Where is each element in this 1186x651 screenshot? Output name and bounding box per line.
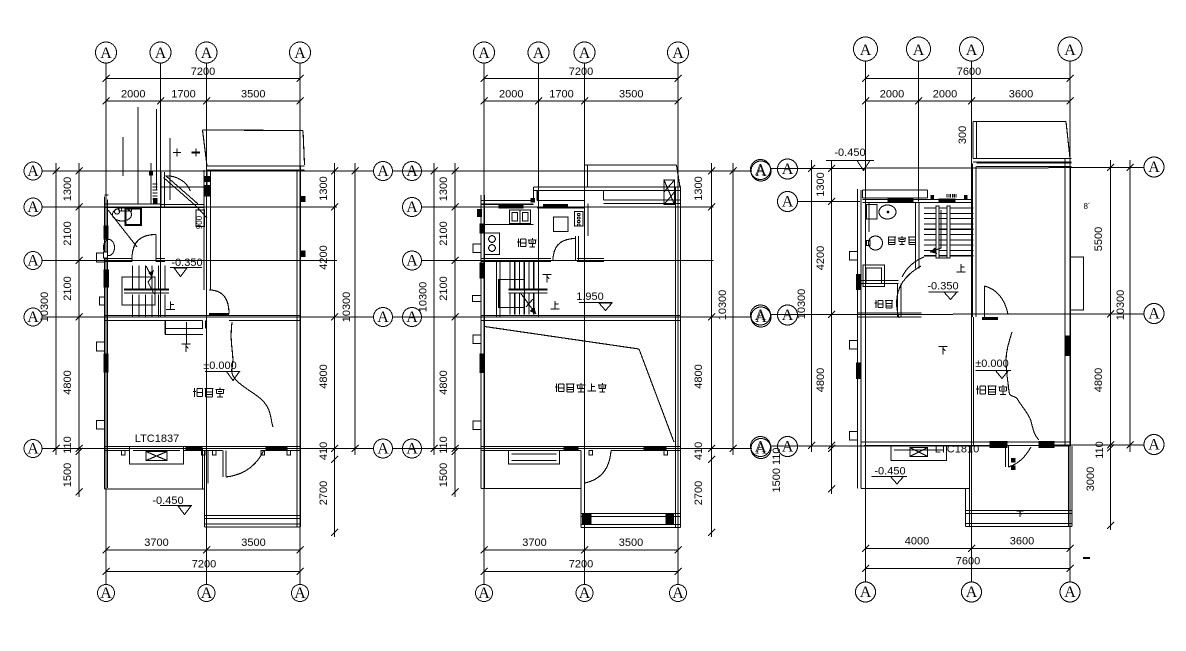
plan1 level -0.350 [170, 257, 203, 277]
plan1 window mark right wall lower [301, 251, 305, 257]
plan2 kitchen label [517, 238, 537, 247]
plan2 level 1.950 [576, 291, 612, 311]
plan1 stair hall label up [166, 302, 175, 310]
svg-text:7600: 7600 [957, 66, 981, 78]
plan1 stairs landing rail [124, 290, 169, 294]
plan3 storage top wall [858, 281, 899, 284]
plan1 axis circle A bottom 4 [292, 585, 309, 603]
plan1 stairs treads upper [133, 266, 166, 290]
svg-text:A: A [100, 45, 112, 62]
svg-text:A: A [1148, 306, 1160, 323]
svg-text:A: A [1148, 159, 1160, 176]
plan2 axis grid line vertical 3 [584, 63, 586, 584]
plan2 axis circle A left row3 [403, 251, 422, 270]
plan3 shower box [863, 265, 885, 287]
plan2 porch bottom steps [581, 451, 681, 528]
svg-text:4800: 4800 [318, 364, 330, 388]
plan2 wall row4 [481, 316, 681, 321]
plan1 black pier entry left [150, 172, 153, 176]
plan2 axis circle A bottom 4 [670, 585, 687, 603]
plan1 axis circle A bottom 3 [198, 585, 215, 603]
plan2 porch column left [583, 514, 592, 524]
plan1 wall pier bumps left [97, 253, 105, 429]
plan1 top dimension 7200 [103, 66, 304, 82]
plan3 stairwell right wall [973, 164, 977, 318]
svg-text:A: A [782, 194, 794, 211]
plan1 axis grid line row3 [42, 260, 337, 262]
plan1 stairs treads lower [133, 295, 166, 318]
plan1 bathroom shower diagonal [108, 210, 137, 247]
plan2 axis circle A right row4 [751, 307, 771, 327]
svg-text:A: A [672, 45, 684, 62]
svg-text:2100: 2100 [438, 276, 450, 300]
svg-text:A: A [294, 585, 306, 602]
plan1 door frame ticks row5 [122, 451, 291, 456]
plan2 kitchen wall row3 with door [481, 259, 604, 262]
plan2 living top wall [604, 191, 682, 204]
svg-text:2100: 2100 [62, 276, 74, 300]
plan3 axis circle A bottom 3 [962, 582, 982, 602]
svg-text:A: A [377, 163, 389, 180]
svg-text:10300: 10300 [341, 292, 353, 323]
svg-text:3500: 3500 [241, 89, 265, 101]
plan3 bottom dimension 7600 [862, 556, 1074, 573]
plan1 living room label [193, 388, 225, 398]
plan1 bottom dimension 7200 [103, 559, 304, 576]
plan1 axis circle A bottom 1 [98, 585, 115, 603]
plan1 entry ramp diagonal [164, 176, 208, 219]
plan3 living room left boundary [973, 317, 975, 446]
plan1 axis circle A right row5 [374, 439, 393, 458]
plan1 porch bottom steps [205, 516, 301, 528]
svg-text:A: A [913, 42, 925, 59]
plan1 level -0.450 [152, 495, 192, 515]
plan2 porch column right [666, 514, 674, 524]
plan3 axis circle A top 1 [854, 37, 878, 61]
plan3 pier right outside [1071, 257, 1084, 310]
svg-text:A: A [201, 45, 213, 62]
plan3 axis grid line vertical 4 [1069, 61, 1071, 582]
svg-text:A: A [579, 45, 591, 62]
plan1 wall right outer living [297, 166, 301, 449]
plan3 axis grid line vertical 3 [971, 61, 973, 582]
plan3 right outer dimension 10300 [1115, 160, 1134, 452]
svg-text:A: A [755, 307, 767, 324]
plan1 axis grid line row1 [42, 170, 374, 172]
plan2 entry door leaf and arc [581, 451, 611, 484]
plan1 axis circle A left row3 [24, 252, 42, 270]
plan1 window LTC1837 box [130, 447, 184, 465]
plan1 balcony edge mark [173, 149, 200, 157]
svg-text:A: A [860, 42, 872, 59]
svg-text:-0.450: -0.450 [874, 466, 905, 478]
svg-text:A: A [1148, 437, 1160, 454]
svg-text:110: 110 [438, 436, 450, 454]
plan3 axis grid line row2 [798, 201, 861, 203]
svg-text:1700: 1700 [171, 89, 195, 101]
plan1 wavy leader line [231, 322, 273, 427]
svg-text:7600: 7600 [956, 556, 980, 568]
svg-text:4200: 4200 [815, 246, 827, 270]
plan1 basin [113, 208, 132, 221]
svg-text:2100: 2100 [438, 221, 450, 245]
plan3 hall door arc [897, 266, 921, 318]
svg-text:A: A [27, 163, 39, 180]
plan2 balcony [585, 165, 682, 191]
plan2 axis circle A right row5 [751, 439, 771, 459]
plan1 stairs arrow [146, 266, 154, 294]
svg-text:A: A [27, 309, 39, 326]
plan1 porch walls [205, 449, 301, 528]
plan3 stairs treads [924, 208, 974, 256]
plan2 axis circle A right row1 [751, 161, 771, 181]
plan3 bottom dimension 4000/3600 [862, 536, 1074, 553]
svg-text:1300: 1300 [438, 177, 450, 201]
plan3 bath shelf line [868, 203, 870, 233]
plan3 porch left wall [966, 446, 970, 527]
svg-text:3500: 3500 [619, 89, 643, 101]
plan3 axis grid line row1 [771, 168, 1145, 169]
svg-text:1.950: 1.950 [576, 291, 604, 303]
svg-text:A: A [406, 199, 418, 216]
svg-text:2000: 2000 [121, 89, 145, 101]
plan2 left inner dimension chain 1300/2100/2100/4800/110/1500 [438, 163, 459, 497]
plan3 threshold door to living [982, 286, 1008, 319]
plan3 axis grid line vertical 1 [865, 61, 867, 582]
svg-text:4200: 4200 [318, 245, 330, 269]
plan2 axis grid line row1 [393, 170, 753, 172]
plan2 wall left outer [481, 195, 485, 489]
plan1 wall core lower part [204, 227, 211, 291]
plan3 wall row4 left part [858, 313, 922, 317]
svg-text:A: A [27, 441, 39, 458]
plan3 wall row5 with window [861, 442, 1071, 448]
plan1 axis circle A left row2 [24, 198, 42, 216]
plan2 axis grid line row4 [393, 316, 753, 318]
svg-text:2700: 2700 [693, 481, 705, 505]
svg-text:A: A [966, 584, 978, 601]
svg-text:4800: 4800 [1093, 368, 1105, 392]
plan3 bathroom label [888, 236, 916, 245]
svg-text:10300: 10300 [39, 292, 51, 323]
svg-text:A: A [579, 585, 591, 602]
plan1 entry bottom wall [161, 205, 204, 208]
svg-text:5500: 5500 [1093, 227, 1105, 251]
plan1 axis grid line vertical 3 [206, 63, 208, 584]
plan2 left outer dimension 10300 [418, 163, 438, 455]
plan2 window box below row5 [509, 451, 560, 465]
plan1 terrace bottom line [105, 449, 206, 490]
svg-text:1300: 1300 [62, 177, 74, 201]
plan3 stairs rails [936, 206, 950, 258]
plan2 stair label down [543, 275, 552, 283]
plan3 stairs bottom curve [902, 257, 924, 277]
plan1 window black left wall 1 [104, 226, 108, 239]
svg-text:2000: 2000 [499, 89, 523, 101]
plan3 left inner dimension chain 1300/4200/4800/110/1500 [771, 160, 835, 494]
plan1 wall bathroom top [105, 195, 162, 211]
plan2 kitchen fridge [554, 217, 569, 232]
plan1 wall row4 [105, 316, 301, 321]
svg-text:A: A [377, 441, 389, 458]
plan2 kitchen door leaf and arc [553, 236, 579, 261]
svg-text:A: A [1064, 42, 1076, 59]
plan1 living room left wall [203, 321, 207, 447]
plan1 axis circle A left row4 [24, 308, 42, 326]
plan2 axis grid line row5 [393, 448, 753, 450]
plan3 axis circle A top 3 [960, 37, 984, 61]
svg-text:3500: 3500 [241, 537, 265, 549]
plan3 window black right wall [1065, 336, 1070, 356]
plan1 wall row5 with window [105, 447, 301, 451]
plan1 entry door leaf and arc [223, 451, 264, 478]
plan2 axis circle A left row2 [403, 198, 422, 217]
plan1 toilet [104, 240, 115, 259]
plan3 stair label up [957, 264, 966, 272]
plan3 axis circle A left row5 [778, 437, 798, 457]
plan3 axis grid line vertical 2 [918, 61, 920, 202]
plan3 living top wall [977, 163, 1072, 167]
svg-text:10300: 10300 [1115, 290, 1127, 321]
plan3 wall row2 with windows [863, 196, 973, 203]
plan2 void room label [555, 383, 607, 392]
svg-text:A: A [782, 307, 794, 324]
svg-text:A: A [782, 439, 794, 456]
svg-text:410: 410 [693, 442, 705, 460]
svg-text:1300: 1300 [693, 176, 705, 200]
svg-text:3600: 3600 [1010, 536, 1034, 548]
svg-text:A: A [294, 45, 306, 62]
plan2 upper wall step with window [534, 187, 585, 208]
plan3 axis grid line row5 [771, 445, 1145, 446]
plan2 wall between kitchen and living [585, 204, 589, 262]
plan3 porch label down [1016, 511, 1023, 517]
plan1 entry steps comb [153, 184, 158, 199]
plan2 right inner dimension chain 1300/4800/410/2700 [693, 163, 715, 537]
plan3 entry door leaf and arc [1006, 446, 1032, 470]
svg-text:-0.350: -0.350 [927, 281, 958, 293]
plan2 axis grid line row3 [422, 260, 714, 262]
plan1 door tag box 900 [195, 210, 205, 229]
plan2 stairs treads upper [510, 262, 539, 290]
plan3 axis circle A top 2 [907, 37, 931, 61]
svg-text:A: A [406, 253, 418, 270]
plan2 wall pier bumps left [473, 244, 482, 430]
plan1 wall core between entry and living [204, 170, 211, 232]
plan1 balcony top [203, 130, 305, 170]
svg-text:4800: 4800 [62, 370, 74, 394]
plan1 vertical lines above plan [123, 107, 170, 204]
plan1 axis grid line vertical 1 [105, 63, 107, 584]
plan3 wall right outer [1065, 159, 1071, 447]
plan2 axis circle A top 4 [668, 42, 689, 63]
plan2 axis circle A top 3 [574, 42, 595, 63]
plan3 right inner dimension chain 5500/4800/110/3000 [1085, 160, 1114, 530]
svg-text:1300: 1300 [318, 176, 330, 200]
plan2 wall right outer [676, 187, 681, 528]
plan1 axis circle A left row1 [24, 162, 42, 180]
plan2 stairs well border [499, 279, 525, 307]
plan2 axis circle A left row4 [403, 308, 422, 327]
svg-text:A: A [27, 253, 39, 270]
plan1 step band at living room door [165, 321, 203, 345]
plan3 stairs arrow [930, 210, 941, 254]
plan1 flue black window 2 [205, 186, 211, 197]
svg-text:2000: 2000 [880, 89, 904, 101]
plan2 axis circle A bottom 1 [476, 585, 493, 603]
plan2 stairs arrow [521, 293, 537, 314]
plan3 living room label [976, 385, 1008, 395]
plan2 terrace bottom line [481, 488, 581, 490]
plan1 equipment box dark [126, 209, 142, 226]
svg-text:4000: 4000 [905, 536, 929, 548]
plan3 axis circle A right row5 [1144, 435, 1164, 455]
plan2 window black left wall 1 [480, 224, 484, 233]
plan3 storage label [874, 300, 893, 308]
plan1 right outer dimension 10300 [341, 163, 359, 455]
plan1 axis circle A left row5 [24, 440, 42, 458]
svg-text:410: 410 [318, 442, 330, 460]
plan1 window black left wall 2 [104, 270, 109, 287]
plan2 kitchen corner mark [478, 210, 482, 217]
plan1 axis grid line row2 [42, 206, 337, 208]
svg-text:110: 110 [62, 436, 74, 454]
plan3 wall pier bumps left [850, 252, 858, 441]
plan2 axis grid line vertical 4 [677, 63, 679, 584]
plan2 window black left wall 2 [480, 263, 484, 278]
plan1 axis grid line vertical 2 [160, 63, 162, 317]
plan3 terrace bottom line [861, 488, 970, 490]
plan3 level 0.000 [975, 358, 1011, 379]
plan2 axis circle A top 1 [474, 42, 495, 63]
plan3 axis circle A top 4 [1058, 37, 1082, 61]
plan3 level -0.450 top [826, 147, 874, 171]
svg-text:8´: 8´ [1083, 202, 1090, 211]
svg-text:4800: 4800 [815, 368, 827, 392]
svg-text:A: A [155, 45, 167, 62]
plan3 balcony [973, 122, 1072, 163]
svg-text:4800: 4800 [693, 364, 705, 388]
svg-text:3700: 3700 [144, 537, 168, 549]
plan3 axis circle A bottom 1 [856, 582, 876, 602]
plan2 axis circle A left row1 [403, 162, 422, 181]
plan2 axis circle A left row5 [403, 439, 422, 458]
plan2 axis grid line vertical 2 [538, 63, 540, 317]
plan3 bathroom top wall band [863, 190, 928, 198]
plan2 balcony planter box [664, 180, 675, 205]
svg-text:1700: 1700 [549, 89, 573, 101]
plan2 door frame ticks row5 [589, 451, 668, 456]
plan3 axis grid line row4 [771, 313, 1145, 316]
svg-text:10300: 10300 [796, 289, 808, 320]
plan3 axis circle A left row4 [778, 305, 798, 325]
plan2 bottom dimension 7200 [481, 559, 682, 576]
svg-text:A: A [755, 439, 767, 456]
plan3 axis circle A right row4 [1144, 304, 1164, 324]
svg-text:LTC1837: LTC1837 [135, 433, 179, 445]
plan2 bottom dimension 3700/3500 [481, 537, 682, 554]
plan1 wall bathroom bottom row3 [105, 259, 166, 262]
plan2 wall row5 with window [481, 447, 681, 451]
svg-text:A: A [478, 585, 490, 602]
plan3 top dimension 7600 [862, 66, 1074, 82]
plan2 top dimension 7200 [481, 66, 682, 82]
svg-text:±0.000: ±0.000 [975, 358, 1009, 370]
svg-text:A: A [860, 584, 872, 601]
plan1 right inner dimension chain 1300/4200/4800/410/2700 [318, 163, 338, 537]
plan2 axis circle A top 2 [528, 42, 549, 63]
plan3 bathroom right wall [916, 202, 920, 269]
plan2 kitchen counter edge [485, 224, 534, 226]
svg-text:2700: 2700 [318, 481, 330, 505]
plan3 axis circle A left row2 [778, 192, 798, 212]
svg-text:3000: 3000 [1085, 467, 1097, 491]
svg-text:3500: 3500 [619, 537, 643, 549]
plan3 label down [939, 347, 948, 355]
svg-text:A: A [672, 585, 684, 602]
plan1 label down [182, 344, 191, 352]
plan3 wall left outer [858, 189, 862, 489]
plan3 window black left wall 1 [857, 275, 861, 290]
svg-text:A: A [533, 45, 545, 62]
svg-text:300: 300 [957, 126, 969, 144]
plan1 axis grid line row4 [42, 316, 374, 318]
plan2 top dimension chain 2000/1700/3500 [481, 89, 682, 105]
plan1 axis grid line vertical 4 [299, 63, 301, 584]
plan3 level -0.450 lower [872, 466, 908, 485]
svg-text:A: A [755, 162, 767, 179]
plan1 stairs well border [122, 277, 155, 305]
plan3 axis circle A outer-left row4 [751, 305, 771, 325]
plan1 axis circle A top 1 [96, 42, 117, 63]
plan2 void slope lines [485, 327, 675, 443]
plan2 stairs landing rail [509, 290, 548, 294]
plan1 axis circle A top 4 [290, 42, 311, 63]
svg-text:A: A [201, 585, 213, 602]
plan2 window black left wall 3 [480, 354, 484, 373]
svg-text:900: 900 [195, 215, 204, 229]
plan2 kitchen flue shaft [575, 212, 584, 227]
plan2 axis circle A bottom 3 [576, 585, 593, 603]
plan1 axis circle A top 2 [150, 42, 171, 63]
plan3 wavy leader line [1006, 332, 1039, 440]
plan2 stair left wall [497, 262, 501, 318]
plan3 axis circle A bottom 4 [1060, 582, 1080, 602]
plan3 window hatch comb [947, 194, 956, 198]
plan1 left inner dimension chain 1300/2100/2100/4800/110/1500 [62, 163, 83, 497]
plan3 axis circle A outer-left row5 [751, 437, 771, 457]
svg-text:10300: 10300 [418, 282, 430, 313]
plan2 stair label up [551, 301, 560, 309]
plan1 axis grid line row5 [42, 448, 374, 450]
plan1 axis circle A top 3 [196, 42, 217, 63]
plan2 axis grid line row2 [422, 206, 714, 208]
svg-text:7200: 7200 [192, 559, 216, 571]
plan1 entry door arc [167, 176, 191, 191]
svg-text:2000: 2000 [933, 89, 957, 101]
plan1 flue black window 1 [205, 177, 211, 182]
plan3 level -0.350 [927, 281, 958, 300]
plan1 left outer dimension 10300 [39, 163, 60, 455]
plan3 toilet [867, 205, 897, 220]
svg-text:A: A [478, 45, 490, 62]
plan1 level 0.000 [203, 360, 239, 381]
svg-text:1500: 1500 [438, 463, 450, 487]
svg-text:1300: 1300 [815, 172, 827, 196]
plan3 basin [867, 236, 883, 250]
svg-text:4800: 4800 [438, 370, 450, 394]
plan3 axis circle A left row1 [778, 159, 798, 179]
